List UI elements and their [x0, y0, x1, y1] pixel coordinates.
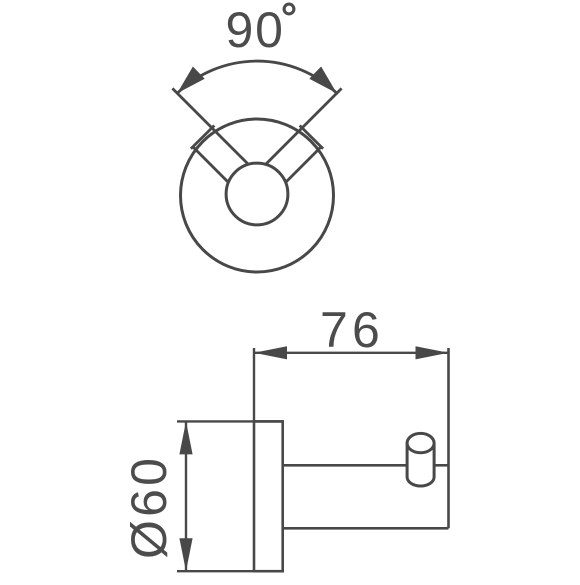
- dim 76 right arrowhead: [416, 346, 449, 359]
- peg body: [407, 443, 434, 486]
- right arc arrowhead: [309, 67, 337, 94]
- degree symbol: [284, 4, 294, 14]
- dia 60 bottom extension line: [177, 570, 283, 572]
- left prong upper edge + extension line to dimension arc: [172, 88, 249, 165]
- 76 dim extension line (plate left face, upward): [253, 348, 255, 421]
- dia 60 top arrowhead: [179, 421, 192, 454]
- svg-text:Ø60: Ø60: [121, 455, 177, 559]
- arm bottom line: [283, 527, 449, 530]
- right prong end cap: [300, 126, 323, 149]
- dia 60 top extension line: [177, 420, 283, 422]
- dim line 76: [254, 352, 449, 354]
- arm top line (left of peg): [283, 464, 407, 467]
- hook post inner circle: [226, 163, 288, 225]
- svg-text:76: 76: [320, 302, 384, 358]
- angle dimension arc 90 deg: [177, 61, 337, 93]
- right prong upper edge + extension line to dimension arc: [265, 88, 342, 165]
- svg-text:90: 90: [226, 2, 285, 58]
- left arc arrowhead: [177, 67, 205, 94]
- side view: wall plate: [254, 421, 283, 571]
- dim 76 left arrowhead: [254, 346, 287, 359]
- arm top line (right of peg): [434, 464, 448, 467]
- dia 60 bottom arrowhead: [179, 538, 192, 571]
- dim line dia 60: [185, 421, 187, 571]
- arm right end / 76 dim extension line: [447, 348, 450, 528]
- peg top ellipse: [407, 433, 434, 452]
- left prong end cap: [191, 126, 214, 149]
- top view: hook flange outer circle: [181, 119, 334, 272]
- right prong lower edge: [285, 147, 321, 183]
- left prong lower edge: [193, 147, 229, 183]
